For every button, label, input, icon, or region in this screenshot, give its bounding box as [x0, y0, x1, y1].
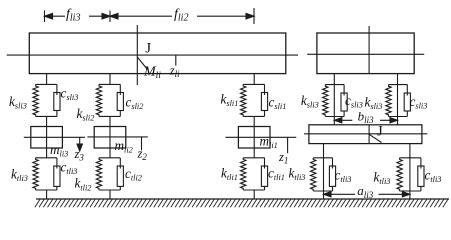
upper suspension bottom bar (left)	[325, 116, 344, 118]
damper c_sli3 rod	[56, 84, 58, 95]
upper suspension top bar 3	[36, 83, 57, 85]
svg-text:ktli2: ktli2	[75, 176, 92, 193]
wire mass to lower suspension 3	[46, 148, 48, 158]
damper c_tli3 rod	[56, 158, 58, 169]
svg-text:ctli3: ctli3	[61, 159, 78, 176]
dimension arrow b_li3 left	[334, 118, 352, 123]
svg-text:ctli2: ctli2	[125, 166, 142, 183]
tyre suspension bottom bar (left)	[313, 190, 332, 192]
spring k_tli3 (right wheel)	[397, 158, 402, 191]
spring k_sli2	[96, 84, 101, 116]
axle centre line	[368, 125, 370, 144]
wire upper suspension to mass 2	[109, 116, 111, 126]
wire mass to lower suspension 2	[109, 148, 111, 158]
damper c_tli3 body	[54, 166, 60, 186]
wire mass to lower suspension 1	[253, 148, 255, 158]
wire beam to upper suspension 1	[253, 74, 255, 85]
mass m_li1 horizontal axis	[225, 136, 296, 138]
damper c_sli2 stub	[119, 111, 121, 117]
svg-text:csli1: csli1	[269, 94, 287, 111]
tick z_1	[287, 137, 289, 153]
damper c_sli3 stub	[56, 111, 58, 117]
spring k_sli3 (left wheel)	[323, 85, 328, 117]
tyre suspension top bar (left)	[313, 157, 332, 159]
tyre suspension bottom bar (right)	[400, 190, 421, 192]
damper c_sli3 body	[54, 93, 60, 111]
svg-text:ksli1: ksli1	[221, 92, 239, 109]
svg-text:ktli3: ktli3	[11, 167, 28, 184]
wire end-view beam to upper suspension (left)	[333, 74, 335, 125]
tyre suspension top bar (right)	[400, 157, 421, 159]
damper c_tli3 (right wheel) rod	[420, 158, 422, 169]
dimension arrow f_li2 left	[110, 13, 172, 19]
mass block m_li3 vertical centre line	[46, 127, 48, 149]
damper c_tli2 stub	[119, 186, 121, 190]
svg-text:ctli1: ctli1	[268, 165, 285, 182]
damper c_sli3 (left wheel) stub	[343, 111, 345, 117]
svg-text:fli3: fli3	[66, 7, 80, 24]
damper c_sli2 rod	[119, 84, 121, 95]
damper c_sli1 rod	[264, 84, 266, 95]
svg-text:ksli3: ksli3	[365, 94, 383, 111]
svg-text:ktli3: ktli3	[374, 170, 391, 187]
svg-text:ksli3: ksli3	[301, 93, 319, 110]
svg-text:z2: z2	[137, 147, 148, 163]
damper c_tli1 stub	[264, 186, 266, 190]
beam body M_li (side view)	[29, 33, 286, 74]
dimension arrow a_li3 left	[324, 192, 356, 197]
wire lower suspension to ground 2	[109, 190, 111, 199]
upper suspension top bar 1	[243, 83, 264, 85]
svg-text:z3: z3	[74, 147, 85, 163]
damper c_tli1 body	[261, 166, 267, 186]
damper c_tli3 (right wheel) body	[418, 166, 424, 186]
dimension arrow b_li3 right	[380, 118, 398, 123]
arrow z_3	[77, 137, 82, 151]
upper suspension bottom bar (right)	[389, 116, 408, 118]
svg-text:mli1: mli1	[260, 134, 278, 151]
axle bar (end view)	[309, 125, 422, 144]
wire beam to upper suspension 3	[46, 74, 48, 85]
leader line to M_li	[137, 57, 147, 70]
upper suspension bottom bar 1	[243, 115, 264, 117]
upper suspension top bar 2	[99, 83, 120, 85]
spring k_tli2	[96, 158, 101, 190]
ground line	[36, 198, 449, 200]
mass block m_li2	[94, 127, 126, 149]
svg-text:mli3: mli3	[50, 142, 68, 159]
svg-text:fli2: fli2	[174, 7, 188, 24]
damper c_tli3 (right wheel) stub	[420, 186, 422, 191]
svg-text:Mli: Mli	[143, 64, 161, 81]
dimension arrow f_li3 right	[89, 13, 110, 19]
wire lower suspension to ground 3	[46, 190, 48, 199]
tick z_li	[175, 55, 177, 66]
mass block m_li1	[238, 127, 270, 149]
beam end-view mid axis	[307, 53, 424, 55]
beam centroid vertical line	[136, 25, 138, 85]
beam end-view centre line	[368, 26, 370, 74]
damper c_sli2 body	[117, 93, 123, 111]
svg-text:ali3: ali3	[357, 183, 374, 200]
svg-text:ktli1: ktli1	[221, 165, 238, 182]
wire upper suspension to mass 3	[46, 116, 48, 126]
wire beam to upper suspension 2	[109, 74, 111, 85]
damper c_sli1 body	[261, 93, 267, 111]
svg-text:z1: z1	[278, 150, 288, 166]
damper c_tli1 rod	[264, 158, 266, 169]
wire axle to tyre suspension (right)	[409, 144, 411, 199]
damper c_tli3 (left wheel) body	[329, 166, 335, 186]
spring k_sli3 (right wheel)	[386, 85, 391, 117]
svg-text:ksli2: ksli2	[77, 106, 95, 123]
beam mid axis line	[7, 54, 298, 56]
mass block m_li1 vertical centre line	[253, 127, 255, 149]
svg-text:mli2: mli2	[115, 138, 133, 155]
dimension tick left of f_li3	[44, 11, 46, 23]
wire axle to tyre suspension (left)	[323, 144, 325, 199]
svg-text:ksli3: ksli3	[9, 94, 27, 111]
spring k_tli3 (left wheel)	[311, 158, 316, 191]
svg-text:csli3: csli3	[61, 85, 79, 102]
spring k_sli3	[33, 84, 38, 116]
damper c_sli3 (left wheel) rod	[343, 85, 345, 96]
damper c_tli3 stub	[56, 186, 58, 190]
lower suspension bottom bar 3	[36, 189, 57, 191]
ground hatching	[35, 199, 448, 207]
dimension arrow f_li3 left	[45, 13, 66, 19]
upper suspension top bar (left)	[325, 84, 344, 86]
mass m_li2 horizontal axis	[87, 136, 147, 138]
tick z_2	[141, 137, 143, 150]
damper c_sli3 (right wheel) body	[404, 93, 410, 111]
svg-text:csli3: csli3	[410, 94, 428, 111]
svg-text:J: J	[377, 124, 383, 140]
dimension tick between f_li3 and f_li2	[109, 11, 111, 23]
damper c_tli2 rod	[119, 158, 121, 169]
svg-text:ctli3: ctli3	[335, 168, 352, 185]
lower suspension top bar 3	[36, 157, 57, 159]
dimension arrow a_li3 right	[379, 192, 410, 197]
svg-text:ctli3: ctli3	[425, 168, 442, 185]
axle leader line	[369, 134, 381, 142]
svg-text:csli3: csli3	[345, 93, 363, 110]
mass block m_li2 vertical centre line	[109, 127, 111, 149]
mass m_li3 horizontal axis	[24, 136, 85, 138]
mass block m_li3	[31, 127, 63, 149]
wire end-view beam to upper suspension (right)	[397, 74, 399, 125]
damper c_tli3 (left wheel) rod	[332, 158, 334, 169]
damper c_tli3 (left wheel) stub	[332, 186, 334, 191]
wire lower suspension to ground 1	[253, 190, 255, 199]
spring k_sli1	[241, 84, 246, 116]
upper suspension bottom bar 2	[99, 115, 120, 117]
wire upper suspension to mass 1	[253, 116, 255, 126]
lower suspension bottom bar 1	[243, 189, 264, 191]
lower suspension top bar 2	[99, 157, 120, 159]
svg-text:csli2: csli2	[126, 95, 144, 112]
damper c_sli3 (right wheel) stub	[406, 111, 408, 117]
dimension arrow f_li2 right	[197, 13, 254, 19]
damper c_sli3 (right wheel) rod	[406, 85, 408, 96]
beam end-view body	[317, 33, 414, 74]
svg-text:zli: zli	[169, 63, 180, 79]
axle mid axis	[304, 133, 427, 135]
svg-text:J: J	[145, 40, 151, 56]
lower suspension top bar 1	[243, 157, 264, 159]
dimension tick right of f_li2	[253, 8, 255, 24]
damper c_tli2 body	[117, 166, 123, 186]
lower suspension bottom bar 2	[99, 189, 120, 191]
damper c_sli1 stub	[264, 111, 266, 117]
spring k_tli3	[33, 158, 38, 190]
upper suspension top bar (right)	[389, 84, 408, 86]
damper c_sli3 (left wheel) body	[341, 93, 347, 111]
spring k_tli1	[241, 158, 246, 190]
svg-text:ktli3: ktli3	[289, 166, 306, 183]
upper suspension bottom bar 3	[36, 115, 57, 117]
